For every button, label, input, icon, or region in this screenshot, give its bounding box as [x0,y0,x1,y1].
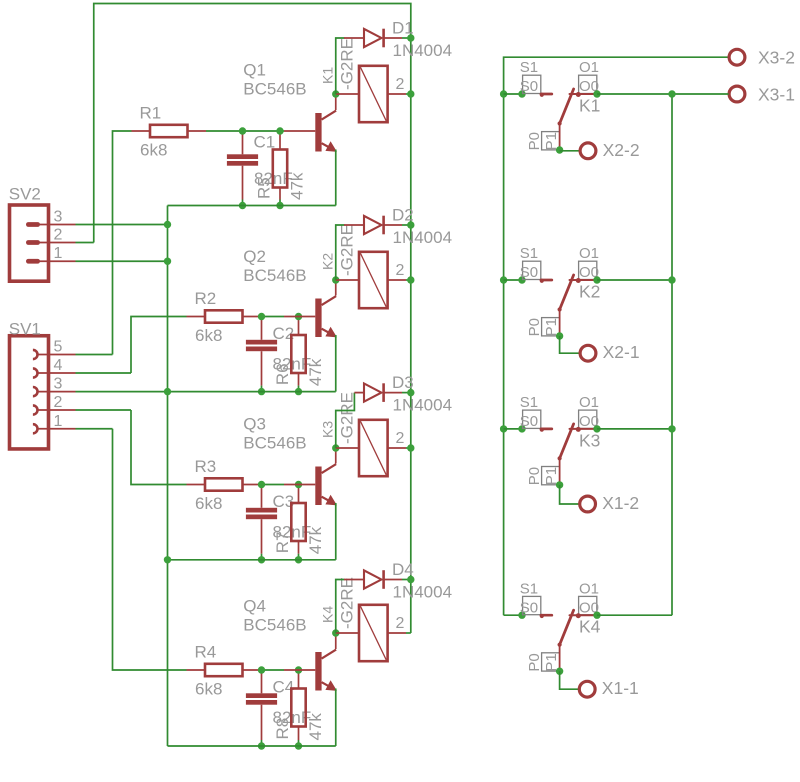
wire cathode of D4 to supply bus [402,579,411,581]
terminal X1-1 [579,681,595,697]
wire O pin of K2 to NO bus [597,279,672,281]
svg-text:S0: S0 [520,599,538,616]
svg-text:R4: R4 [195,643,217,662]
wire R5 to rail [279,200,281,206]
junction R6 top [295,313,302,320]
connector SV1 [10,336,76,449]
svg-text:S1: S1 [520,580,538,597]
svg-text:P0: P0 [526,318,543,336]
svg-text:P0: P0 [526,132,543,150]
svg-text:BC546B: BC546B [243,80,306,99]
svg-text:O1: O1 [579,394,599,411]
wire base node (R2 to Q2 base) [261,316,284,318]
capacitor C4 [246,670,277,740]
junction R8 top [295,666,302,673]
wire anode of D4 [336,580,345,634]
wire supply net from SV2 pin2 to relay bus (top) [94,4,411,243]
svg-text:-G2RE: -G2RE [337,38,356,90]
svg-text:K4: K4 [319,606,335,623]
junction R7 bottom [295,556,302,563]
wire relay supply bus (right vertical) [410,38,412,633]
junction O pin K3 [593,425,600,432]
wire C3 to rail [261,554,263,560]
wire SV1 pin5 to R1 [76,354,113,356]
wire SV2 pin1 to common bus [76,260,168,262]
wire cathode of D2 to supply bus [402,224,411,226]
junction D4 / supply bus [407,576,414,583]
diode D2 [344,216,402,235]
svg-text:SV1: SV1 [9,320,41,339]
junction rail2 / common bus [164,388,171,395]
wire bus to S pin of K2 [504,279,522,281]
capacitor C1 [227,131,258,200]
resistor R3 [187,478,262,490]
svg-text:Q1: Q1 [243,61,266,80]
svg-text:X2-2: X2-2 [603,140,640,160]
resistor R1 [132,125,207,137]
svg-text:R5: R5 [255,177,274,199]
svg-text:47k: 47k [306,713,325,741]
junction C3 top [258,481,265,488]
svg-text:2: 2 [396,76,405,93]
svg-text:S0: S0 [520,264,538,281]
wire SV1 pin4 to R2 [76,372,132,374]
junction SV2 pin1 / bus [164,258,171,265]
emitter rail of channel 4 [168,745,336,747]
connector SV2 [10,205,76,281]
terminal X1-2 [580,496,596,512]
junction C4 bottom [258,742,265,749]
svg-text:Q3: Q3 [243,415,266,434]
relay coil K1 [336,66,406,122]
wire R6 to rail [298,386,300,392]
svg-text:X3-2: X3-2 [758,48,795,68]
junction S pin K2 [518,276,525,283]
wire cathode of D3 to supply bus [402,392,411,394]
wire anode of D2 [336,225,345,280]
svg-text:3: 3 [54,209,63,226]
svg-text:Q4: Q4 [243,597,266,616]
svg-text:BC546B: BC546B [243,266,306,285]
wire P pin of K1 to X2-2 [560,150,581,152]
resistor R4 [187,664,262,676]
svg-text:P0: P0 [526,653,543,671]
svg-text:R1: R1 [140,104,162,123]
terminal X3-1 [729,86,745,102]
svg-text:O1: O1 [579,59,599,76]
wire emitter of Q1 to rail [335,150,337,206]
wire base node (R1 to Q1 base) [206,130,284,132]
svg-text:R3: R3 [195,457,217,476]
relay contact K1 [523,75,597,150]
transistor Q2 [284,280,336,337]
svg-text:2: 2 [396,262,405,279]
terminal X2-2 [580,143,596,159]
svg-text:S1: S1 [520,394,538,411]
svg-text:K1: K1 [579,95,600,115]
svg-text:2: 2 [54,227,63,244]
svg-text:Q2: Q2 [243,247,266,266]
junction O pin K2 [593,276,600,283]
wire O pin of K3 to NO bus [597,428,672,430]
wire base node (R4 to Q4 base) [261,669,284,671]
svg-text:47k: 47k [306,526,325,554]
svg-text:2: 2 [396,615,405,632]
svg-text:K4: K4 [579,617,601,637]
svg-text:R8: R8 [273,718,292,740]
svg-text:5: 5 [54,339,63,356]
svg-text:S0: S0 [520,78,538,95]
emitter rail of channel 2 [76,391,336,393]
svg-text:S1: S1 [520,245,538,262]
emitter rail of channel 3 [168,559,336,561]
junction C1 bottom [239,202,246,209]
resistor R5 (47k) [273,131,287,200]
wire K2 pin2 to supply bus [406,279,411,281]
svg-text:P0: P0 [526,467,543,485]
junction K1 pin2 / supply bus [407,90,414,97]
svg-text:SV2: SV2 [9,185,41,204]
wire base net left segment (R2 to input) [131,317,187,374]
wire SV1 pin2 to R3 [76,409,132,411]
junction NO bus top [668,90,675,97]
wire C4 to rail [261,740,263,746]
svg-text:1: 1 [54,413,63,430]
svg-text:1: 1 [54,245,63,262]
svg-text:S1: S1 [520,59,538,76]
wire base net left segment (R1 to input) [113,131,132,355]
resistor R2 [187,310,262,322]
wire SV1 pin1 to R4 [76,428,113,430]
wire bus to S pin of K1 [504,93,522,95]
wire bus to S pin of K4 [504,614,522,616]
svg-text:1N4004: 1N4004 [393,582,453,601]
wire NO bus (vertical x=672) [671,94,673,615]
junction contact bus K1 [500,90,507,97]
junction S pin K3 [518,425,525,432]
relay coil K4 [336,605,406,661]
svg-text:47k: 47k [306,358,325,386]
wire SV2 pin2 to supply riser [76,242,94,244]
junction contact bus K3 [500,425,507,432]
junction K2 pin2 / supply bus [407,276,414,283]
junction P pin K1 [556,146,563,153]
wire emitter of Q2 to rail [335,335,337,392]
junction D3 / supply bus [407,389,414,396]
emitter rail of channel 1 [168,205,336,207]
svg-text:R7: R7 [273,532,292,554]
wire C1 to rail [242,200,244,206]
svg-text:S0: S0 [520,413,538,430]
svg-text:X1-1: X1-1 [602,678,639,698]
diode D4 [344,570,402,589]
junction S pin K4 [518,612,525,619]
wire K3 pin2 to supply bus [406,447,411,449]
svg-text:K3: K3 [579,430,600,450]
junction R8 bottom [295,742,302,749]
wire emitter of Q3 to rail [335,503,337,560]
transistor Q4 [284,633,336,691]
wire base node (R3 to Q3 base) [261,484,284,486]
svg-text:O1: O1 [579,245,599,262]
junction P pin K2 [556,332,563,339]
wire common bus (vertical x=167.5) [167,206,169,747]
junction O pin K4 [593,612,600,619]
junction R5 top [276,127,283,134]
wire R7 to rail [298,554,300,560]
junction contact bus K2 [500,276,507,283]
wire O pin of K4 to NO bus [597,614,672,616]
wire base net left segment (R4 to input) [113,429,187,670]
relay contact K4 [523,596,597,671]
wire O pin of K1 to NO bus [597,93,729,95]
svg-text:47k: 47k [287,172,306,200]
svg-text:1N4004: 1N4004 [393,41,453,60]
svg-text:X1-2: X1-2 [602,493,639,513]
diode D3 [354,383,402,402]
resistor R7 (47k) [291,485,305,554]
resistor R6 (47k) [291,317,305,386]
svg-text:R6: R6 [273,363,292,385]
junction P pin K3 [556,481,563,488]
wire SV2 pin3 to common bus [76,224,168,226]
diode D1 [344,29,402,48]
wire cathode of D1 to supply bus [402,37,411,39]
junction D2 / supply bus [407,221,414,228]
wire K4 pin2 to supply bus [406,632,411,634]
junction R6 bottom [295,388,302,395]
svg-text:BC546B: BC546B [243,616,306,635]
svg-text:K2: K2 [579,281,600,301]
svg-text:-G2RE: -G2RE [337,577,356,629]
terminal X3-2 [729,49,745,65]
wire emitter of Q4 to rail [335,689,337,747]
capacitor C2 [246,317,277,386]
wire P pin of K2 to X2-1 [560,336,581,353]
relay contact K3 [523,410,597,485]
wire anode of D1 [336,38,345,94]
relay coil K3 [336,420,406,476]
junction rail3 / common bus [164,556,171,563]
svg-text:K1: K1 [319,67,335,84]
junction K3 pin2 / supply bus [407,444,414,451]
svg-text:4: 4 [54,357,63,374]
junction NO bus K3 [668,425,675,432]
wire anode of D3 [336,393,355,448]
wire base net left segment (R3 to input) [131,410,187,485]
relay contact K2 [523,261,597,336]
relay coil K2 [336,252,406,308]
junction collector node K3 [332,444,339,451]
resistor R8 (47k) [291,670,305,740]
junction R7 top [295,481,302,488]
junction C2 bottom [258,388,265,395]
svg-text:1N4004: 1N4004 [393,395,453,414]
junction NO bus K2 [668,276,675,283]
terminal X2-1 [580,345,596,361]
svg-text:BC546B: BC546B [243,434,306,453]
svg-text:X3-1: X3-1 [758,84,795,104]
junction D1 / supply bus [407,34,414,41]
svg-text:2: 2 [54,394,63,411]
junction P pin K4 [556,668,563,675]
wire bus to S pin of K3 [504,428,522,430]
svg-text:K2: K2 [319,253,335,270]
capacitor C3 [246,485,277,554]
svg-text:6k8: 6k8 [195,680,222,699]
svg-text:6k8: 6k8 [140,141,167,160]
svg-text:R2: R2 [195,289,217,308]
wire K1 pin2 to supply bus [406,93,411,95]
svg-text:2: 2 [396,430,405,447]
junction collector node K1 [332,90,339,97]
svg-text:1N4004: 1N4004 [393,228,453,247]
transistor Q3 [284,448,336,505]
junction collector node K4 [332,629,339,636]
junction R5 bottom [276,202,283,209]
wire P pin of K4 to X1-1 [560,671,580,689]
junction C4 top [258,666,265,673]
junction C2 top [258,313,265,320]
wire C2 to rail [261,386,263,392]
junction O pin K1 [593,90,600,97]
svg-text:6k8: 6k8 [195,326,222,345]
wire P pin of K3 to X1-2 [560,485,580,504]
junction SV2 pin3 / bus [164,221,171,228]
svg-text:O1: O1 [579,580,599,597]
junction S pin K1 [518,90,525,97]
junction C1 top [239,127,246,134]
svg-text:-G2RE: -G2RE [337,224,356,276]
junction C3 bottom [258,556,265,563]
wire contact common bus to X3-2 [504,57,729,615]
transistor Q1 [284,94,336,152]
junction collector node K2 [332,276,339,283]
svg-text:3: 3 [54,376,63,393]
wire R8 to rail [298,740,300,746]
svg-text:X2-1: X2-1 [603,342,640,362]
svg-text:6k8: 6k8 [195,494,222,513]
svg-text:K3: K3 [319,421,335,438]
